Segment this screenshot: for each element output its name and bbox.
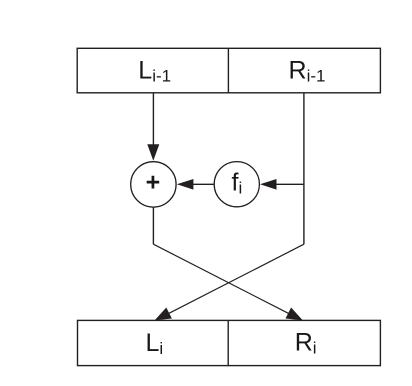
diagonal wire XOR to R_i [153, 244, 291, 315]
arrowhead into XOR [147, 144, 159, 161]
arrowhead into L_i [155, 308, 172, 321]
f circle [214, 162, 259, 207]
svg-text:Ri-1: Ri-1 [289, 57, 326, 86]
svg-text:Li-1: Li-1 [138, 57, 171, 86]
wire from R_i-1 down [303, 94, 305, 245]
arrowhead into XOR right [177, 179, 194, 190]
svg-text:Ri: Ri [295, 329, 317, 358]
bottom register box [78, 320, 381, 365]
top register box [77, 48, 380, 93]
wire f to XOR [193, 183, 215, 185]
svg-text:+: + [146, 168, 161, 196]
svg-text:Li: Li [146, 329, 164, 358]
arrowhead into R_i [286, 308, 303, 321]
wire from XOR down [152, 207, 154, 244]
wire from R branch to f [276, 183, 304, 185]
wire from L_i-1 down [152, 94, 154, 147]
svg-text:fi: fi [232, 169, 243, 198]
top box divider [227, 48, 229, 93]
XOR circle [131, 162, 176, 207]
diagonal wire R_i-1 to L_i [166, 244, 304, 315]
bottom box divider [227, 320, 229, 365]
arrowhead into f [260, 179, 277, 190]
